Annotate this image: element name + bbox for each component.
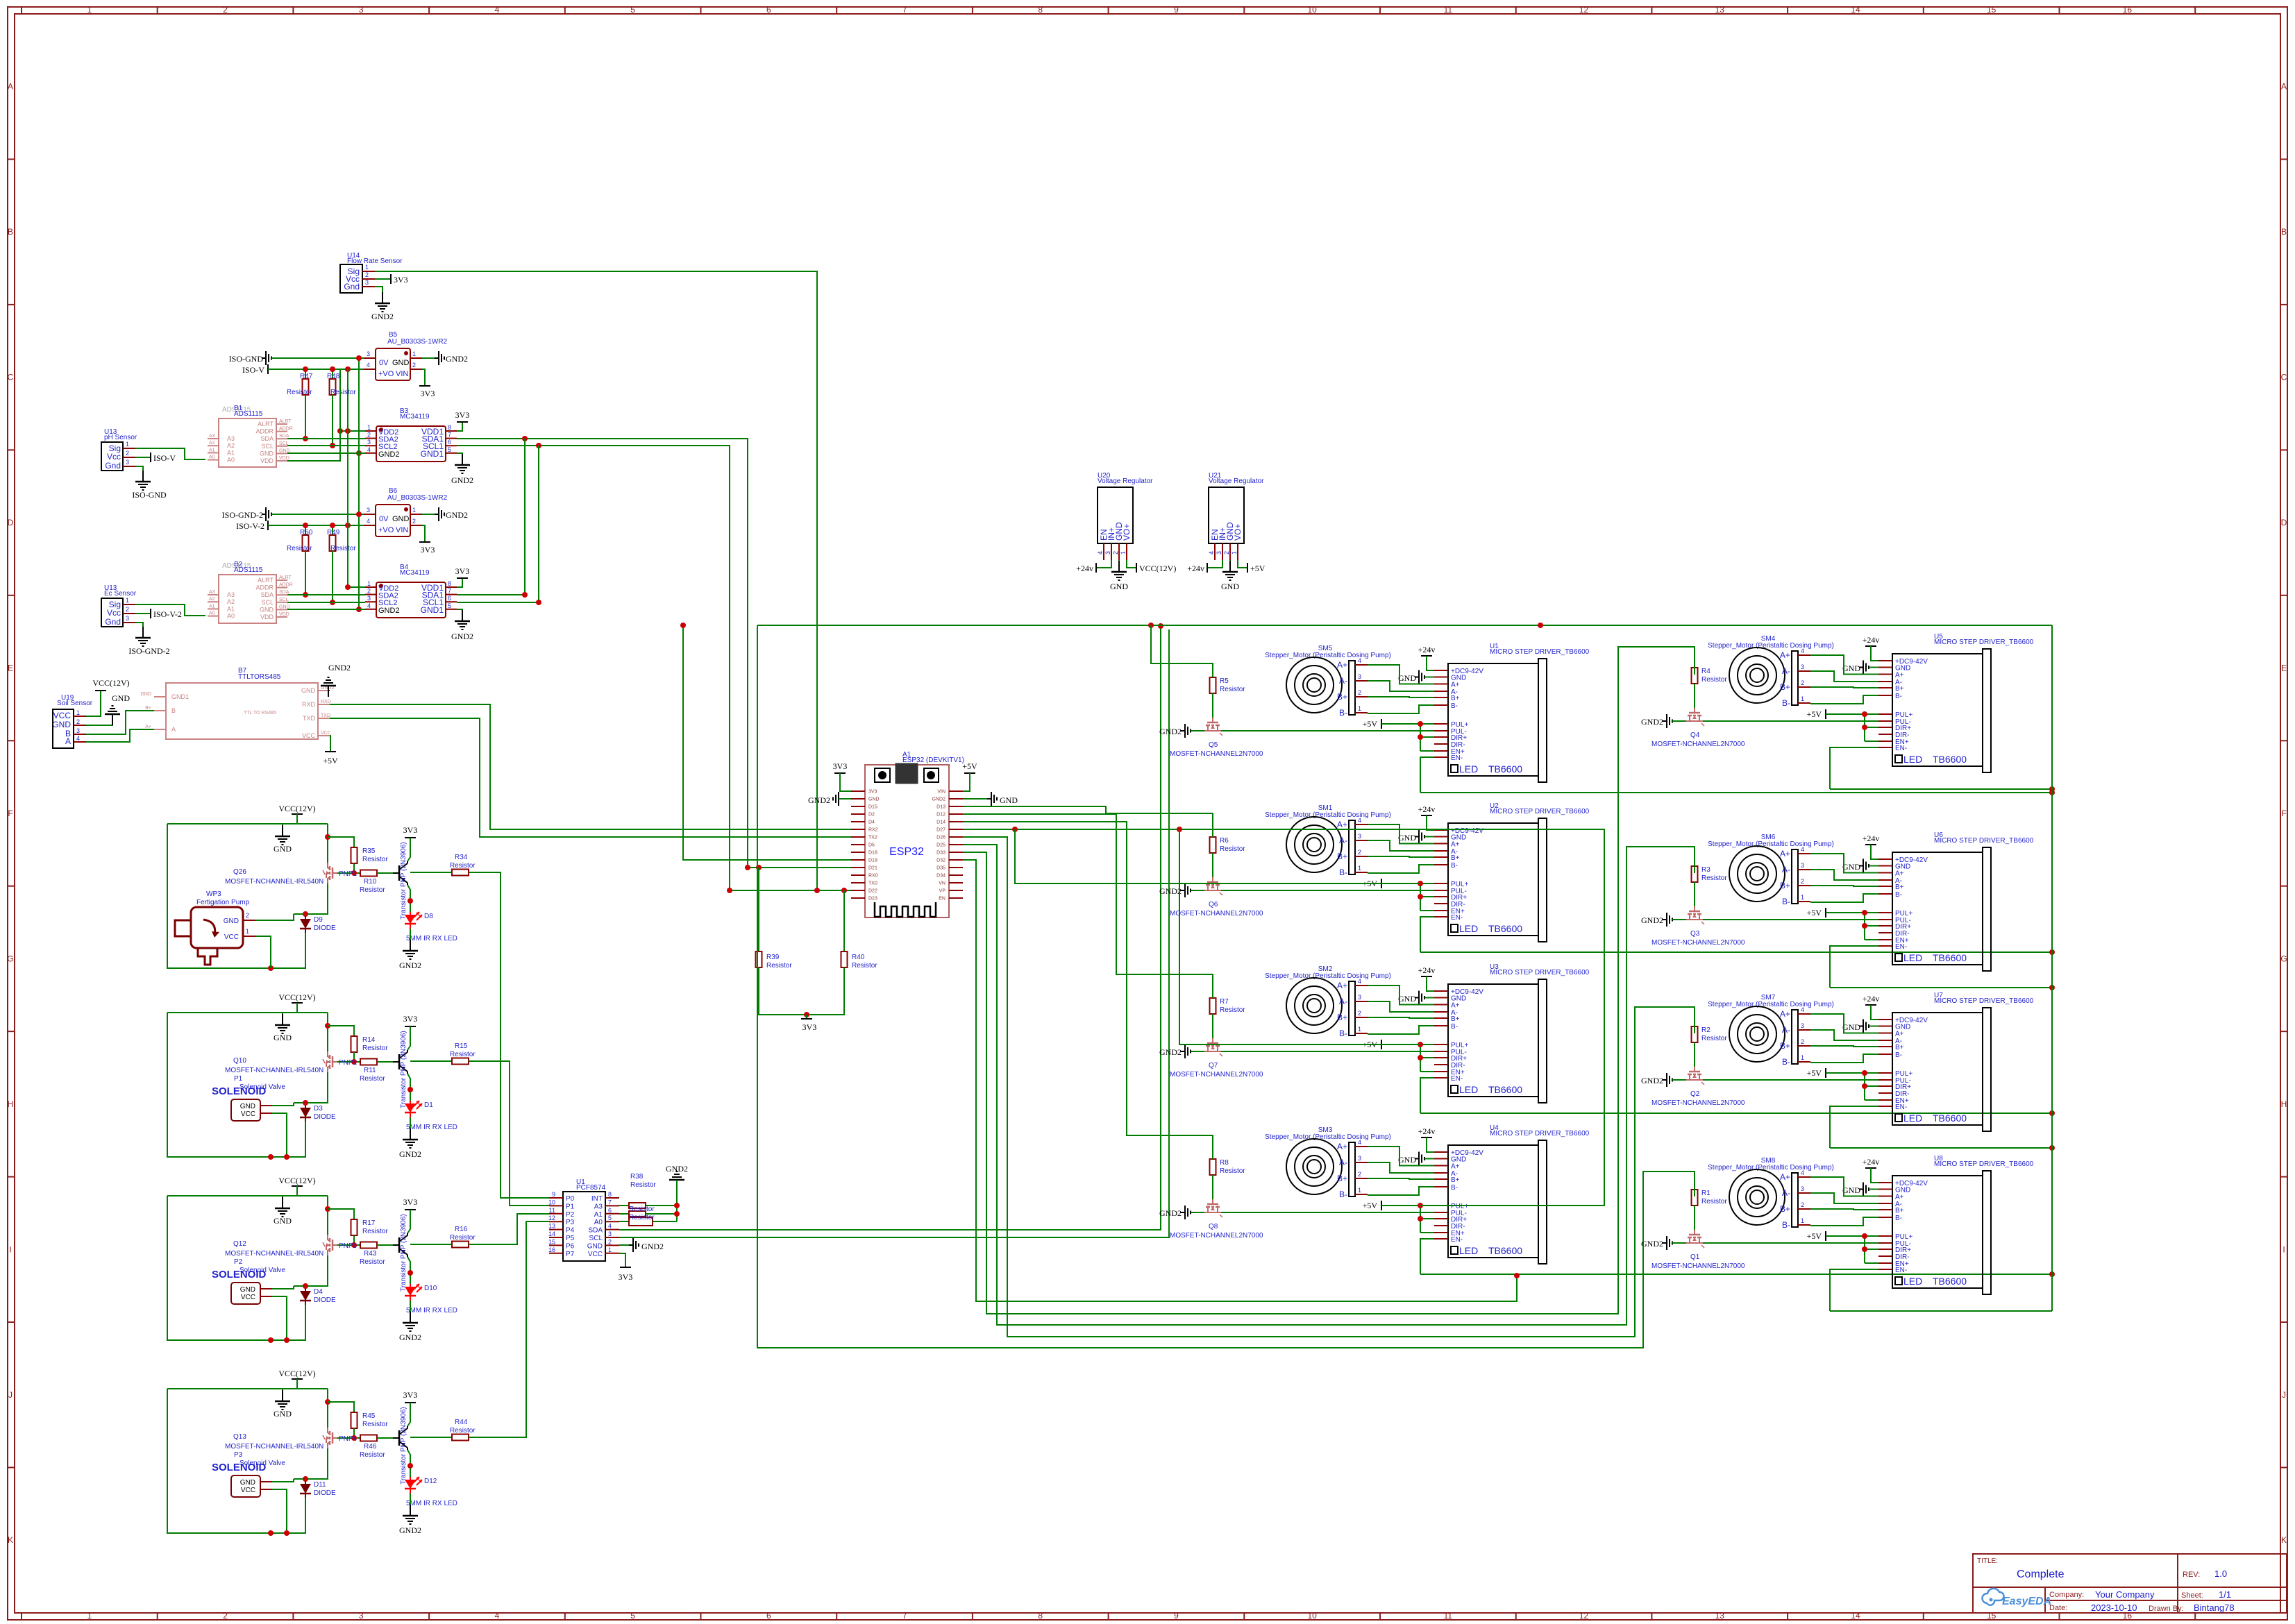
ESP32 boot button — [875, 768, 890, 782]
junction — [1862, 923, 1867, 929]
svg-text:ALRT: ALRT — [258, 421, 274, 428]
svg-text:Resistor: Resistor — [1701, 1035, 1727, 1042]
svg-text:GND: GND — [240, 1479, 255, 1487]
svg-text:Q4: Q4 — [1690, 731, 1700, 739]
wire SM8 B+ — [1810, 1209, 1878, 1210]
pin D32 A1 — [949, 859, 963, 861]
wire SM1 A+ — [1368, 824, 1434, 844]
pin EN+ U8 — [1878, 1262, 1892, 1264]
transistor PNP 2N3906 at Q10 — [393, 1061, 399, 1063]
pin 10 P1 U1 — [549, 1205, 563, 1206]
svg-text:4: 4 — [367, 602, 371, 609]
pin D15 A1 — [851, 806, 865, 807]
svg-text:1: 1 — [412, 507, 416, 514]
pin 2 WP3 — [243, 920, 255, 921]
svg-text:MICRO STEP DRIVER_TB6600: MICRO STEP DRIVER_TB6600 — [1934, 997, 2034, 1005]
svg-text:1: 1 — [1120, 551, 1127, 555]
pin B+ U8 — [1878, 1209, 1892, 1210]
svg-text:7: 7 — [608, 1199, 612, 1206]
svg-text:B-: B- — [1339, 1190, 1347, 1199]
svg-text:GND: GND — [274, 844, 292, 854]
junction — [345, 428, 351, 434]
svg-text:D2: D2 — [868, 813, 875, 818]
junction — [268, 1530, 274, 1536]
svg-text:GND2: GND2 — [399, 1333, 421, 1342]
junction — [303, 523, 308, 528]
svg-text:VIN: VIN — [396, 370, 408, 378]
pin 4 B6 — [364, 525, 376, 526]
pin 13 P4 U1 — [549, 1229, 563, 1230]
svg-text:GND2: GND2 — [1641, 1076, 1663, 1085]
svg-text:GND2: GND2 — [399, 1149, 421, 1159]
pin PUL+ U5 — [1878, 713, 1892, 715]
svg-text:3V3: 3V3 — [403, 1014, 418, 1024]
svg-text:TITLE:: TITLE: — [1977, 1557, 1998, 1565]
svg-text:+5V: +5V — [323, 756, 338, 766]
pin 2 B+ SM8 — [1798, 1208, 1810, 1210]
pin 1 VDD2 B3 — [365, 430, 376, 432]
svg-text:A2: A2 — [209, 597, 215, 602]
svg-text:B-: B- — [1895, 1215, 1902, 1222]
svg-text:A-: A- — [1782, 1188, 1790, 1198]
svg-text:Resistor: Resistor — [450, 862, 476, 870]
connector U19 Soil Sensor — [53, 709, 74, 748]
pin 4 GND2 B3 — [365, 452, 376, 454]
svg-text:2: 2 — [1801, 1038, 1804, 1045]
MOSFET Q8 MOSFET-NCHANNEL2N7000 — [1212, 1199, 1213, 1204]
ground GND2 at D10 — [410, 1312, 411, 1323]
junction — [330, 523, 335, 528]
pin +DC9-42V U4 — [1434, 1151, 1448, 1153]
svg-text:B-: B- — [1451, 1184, 1458, 1192]
IC B2 ADS1115 — [219, 575, 276, 623]
power flag +24v at U21 — [1207, 560, 1222, 568]
svg-text:R2: R2 — [1701, 1026, 1710, 1034]
svg-text:ESP32: ESP32 — [889, 846, 924, 858]
svg-text:TB6600: TB6600 — [1933, 952, 1967, 963]
svg-text:D32: D32 — [936, 858, 945, 863]
title block — [1973, 1554, 2287, 1613]
wire VCC rail — [167, 1012, 328, 1013]
pin 1 VDD2 B4 — [365, 586, 376, 588]
pin 7 A3 U1 — [605, 1205, 619, 1206]
svg-text:VCC: VCC — [302, 732, 316, 739]
svg-text:TTL TO RS485: TTL TO RS485 — [244, 711, 276, 716]
svg-text:Transistor PNP (2N3906): Transistor PNP (2N3906) — [400, 1407, 407, 1485]
ground GND2 at B3 — [457, 453, 462, 465]
svg-text:Resistor: Resistor — [1701, 874, 1727, 882]
svg-text:VCC: VCC — [241, 1110, 255, 1118]
svg-text:Date:: Date: — [2049, 1604, 2067, 1612]
svg-text:RX0: RX0 — [868, 874, 878, 879]
pin A- U2 — [1434, 850, 1448, 852]
pin 6 A1 U1 — [605, 1213, 619, 1215]
svg-text:+5V: +5V — [1807, 1068, 1822, 1078]
svg-text:2: 2 — [1801, 1201, 1804, 1208]
pin 4 A+ SM5 — [1355, 664, 1368, 666]
svg-text:P6: P6 — [566, 1242, 575, 1250]
pin B+ U5 — [1878, 687, 1892, 688]
pin EN+ U4 — [1434, 1232, 1448, 1233]
pin GND U6 — [1878, 865, 1892, 867]
svg-text:MOSFET-NCHANNEL-IRL540N: MOSFET-NCHANNEL-IRL540N — [225, 1443, 323, 1450]
svg-text:A1: A1 — [594, 1211, 603, 1219]
pin +DC9-42V U2 — [1434, 829, 1448, 831]
svg-text:R34: R34 — [455, 854, 468, 861]
pin D2 A1 — [851, 813, 865, 815]
svg-text:2: 2 — [608, 1238, 612, 1245]
svg-text:A1: A1 — [209, 604, 215, 609]
svg-text:Vcc: Vcc — [107, 452, 121, 462]
pin 15 P6 U1 — [549, 1244, 563, 1246]
pin 5 GND1 B4 — [446, 609, 457, 610]
svg-text:P2: P2 — [566, 1211, 575, 1219]
wire B7 TXD to ESP32 TX2 — [330, 718, 851, 837]
pin VP A1 — [949, 890, 963, 891]
wire U14 Sig to ESP32 — [375, 271, 817, 890]
svg-text:B-: B- — [1451, 702, 1458, 710]
junction — [1418, 881, 1423, 886]
svg-text:ISO-GND-2: ISO-GND-2 — [222, 510, 263, 520]
svg-text:Resistor: Resistor — [287, 545, 312, 552]
pin EN- U7 — [1878, 1106, 1892, 1107]
wire +5V to DIR+ and EN+ — [1420, 883, 1421, 911]
svg-text:GND1: GND1 — [171, 693, 189, 700]
wire D13 to R6 — [963, 806, 1213, 837]
svg-text:A-: A- — [1782, 865, 1790, 874]
pin 1 WP3 — [243, 936, 255, 937]
svg-text:4: 4 — [1801, 648, 1804, 654]
pin 2 B+ SM4 — [1798, 686, 1810, 688]
pin EN+ U6 — [1878, 939, 1892, 940]
junction — [841, 888, 847, 893]
pin B+ U7 — [1878, 1046, 1892, 1047]
junction — [1418, 1055, 1423, 1060]
svg-text:GND1: GND1 — [421, 605, 444, 615]
svg-text:D: D — [2281, 518, 2287, 527]
pin 1 B- SM3 — [1355, 1194, 1368, 1195]
resistor R3 — [1692, 866, 1698, 882]
svg-text:Resistor: Resistor — [1701, 676, 1727, 684]
pin EN+ U2 — [1434, 910, 1448, 911]
svg-text:3: 3 — [126, 615, 129, 622]
resistor R6 — [1210, 837, 1216, 853]
wire SM1 A- — [1368, 840, 1434, 851]
svg-text:GND: GND — [240, 1103, 255, 1110]
svg-text:A-: A- — [1339, 836, 1347, 845]
pin 3 A- SM6 — [1798, 869, 1810, 870]
svg-text:GND2: GND2 — [328, 663, 351, 673]
svg-text:G: G — [2280, 954, 2287, 963]
svg-text:PNP2: PNP2 — [339, 1059, 358, 1067]
svg-text:R7: R7 — [1220, 998, 1229, 1006]
power flag 3V3 at B5 VIN — [422, 369, 425, 386]
svg-text:5MM IR RX LED: 5MM IR RX LED — [406, 935, 457, 942]
pin 2 U14 — [362, 278, 375, 280]
svg-text:A+: A+ — [1895, 1031, 1904, 1038]
svg-text:2023-10-10: 2023-10-10 — [2091, 1602, 2137, 1613]
wire +5V to DIR+ and EN+ — [1864, 714, 1865, 741]
svg-text:RXD: RXD — [302, 701, 316, 708]
ground GND at U21 — [1229, 560, 1231, 572]
wire EN- U2 to right trunk — [1420, 951, 2052, 953]
junction — [268, 1337, 274, 1343]
svg-text:A+: A+ — [1895, 1194, 1904, 1201]
pin DIR- U5 — [1878, 734, 1892, 735]
svg-text:GND2: GND2 — [446, 510, 468, 520]
svg-text:MICRO STEP DRIVER_TB6600: MICRO STEP DRIVER_TB6600 — [1490, 1130, 1590, 1137]
svg-text:13: 13 — [548, 1223, 555, 1230]
wire solenoid VCC — [272, 1489, 287, 1533]
svg-text:Resistor: Resistor — [1220, 1167, 1245, 1175]
svg-text:Resistor: Resistor — [450, 1234, 476, 1242]
pin 2 B+ SM5 — [1355, 696, 1368, 697]
power flag 3V3 at B4 — [457, 578, 462, 587]
svg-text:A+: A+ — [1451, 682, 1460, 689]
wire VDD2 link B3-B4 — [348, 369, 365, 587]
svg-text:VCC(12V): VCC(12V) — [278, 1369, 315, 1378]
pin A- U4 — [1434, 1172, 1448, 1174]
junction — [1862, 1070, 1867, 1076]
svg-text:A2: A2 — [227, 598, 235, 605]
pin 6 SCL1 B3 — [446, 445, 457, 446]
pin GND B7 — [154, 696, 166, 697]
diode D4 DIODE — [305, 1286, 306, 1291]
svg-text:A: A — [2281, 82, 2287, 92]
svg-text:VCC(12V): VCC(12V) — [278, 1176, 315, 1185]
LED indicator U3 — [1451, 1085, 1458, 1093]
pin EN- U5 — [1878, 747, 1892, 748]
pin PUL+ U1 — [1434, 723, 1448, 725]
svg-text:B-: B- — [1895, 891, 1902, 899]
svg-text:A-: A- — [1782, 1025, 1790, 1035]
svg-text:D: D — [8, 518, 14, 527]
pin 3 B5 — [364, 357, 376, 359]
svg-text:D10: D10 — [424, 1285, 437, 1292]
svg-text:VIN: VIN — [396, 526, 408, 534]
svg-text:SOLENOID: SOLENOID — [212, 1462, 267, 1473]
svg-text:MC34119: MC34119 — [400, 569, 430, 577]
svg-text:B+: B+ — [1895, 1044, 1904, 1051]
wire D14 to R8 — [963, 822, 1213, 1159]
svg-text:+24v: +24v — [1418, 645, 1436, 654]
svg-text:EasyEDA: EasyEDA — [2002, 1596, 2051, 1607]
pin 1 VCC U1 — [605, 1253, 619, 1254]
pin 6 SCL1 B4 — [446, 601, 457, 602]
wire SM2 B- — [1368, 1026, 1434, 1034]
pin 4 A U19 — [74, 741, 86, 743]
svg-text:3V3: 3V3 — [421, 389, 435, 398]
svg-text:3: 3 — [76, 727, 80, 734]
svg-text:+VO: +VO — [378, 370, 394, 378]
svg-text:ALRT: ALRT — [279, 419, 292, 424]
pin 2 SDA2 B4 — [365, 594, 376, 595]
resistor R15 — [410, 1060, 452, 1062]
pin D18 A1 — [851, 852, 865, 853]
pin A2 B1 — [208, 445, 219, 446]
svg-text:VN: VN — [939, 881, 945, 886]
MOSFET Q12 MOSFET-NCHANNEL-IRL540N — [327, 1196, 328, 1235]
svg-text:B-: B- — [1895, 693, 1902, 700]
wire ISO-GND-2 to B6 pin3 — [271, 514, 364, 515]
junction — [268, 965, 274, 971]
wire ESP32 D22 line — [730, 890, 851, 891]
svg-text:Resistor: Resistor — [362, 1228, 388, 1235]
svg-text:RXD: RXD — [321, 700, 331, 704]
resistor R45 — [328, 1402, 354, 1412]
junction — [1418, 1042, 1423, 1047]
resistor R37 — [619, 1213, 629, 1215]
pin VIN A1 — [949, 790, 963, 792]
pin D23 A1 — [851, 897, 865, 899]
MOSFET Q6 MOSFET-NCHANNEL2N7000 — [1212, 877, 1213, 882]
svg-text:A-: A- — [1339, 1158, 1347, 1167]
svg-text:Q26: Q26 — [233, 868, 246, 876]
svg-text:Resistor: Resistor — [362, 1044, 388, 1052]
svg-text:2: 2 — [365, 271, 369, 278]
svg-text:SCL: SCL — [279, 441, 289, 446]
resistor R50 — [305, 525, 306, 535]
svg-text:6: 6 — [766, 5, 771, 15]
junction — [2049, 1145, 2055, 1151]
svg-text:VCC(12V): VCC(12V) — [278, 804, 315, 813]
svg-text:GND: GND — [1842, 663, 1860, 673]
svg-text:Resistor: Resistor — [629, 1206, 655, 1213]
pin 3 A- SM7 — [1798, 1029, 1810, 1031]
svg-text:GND: GND — [1398, 833, 1416, 843]
svg-text:D21: D21 — [868, 866, 877, 871]
wire EN- U4 to right trunk — [1420, 1274, 2052, 1275]
svg-text:2: 2 — [126, 606, 129, 613]
svg-text:GND2: GND2 — [1159, 1047, 1182, 1057]
pin GND B7 — [318, 690, 330, 691]
LED indicator U8 — [1895, 1277, 1902, 1285]
ground flag GND2 at U1 pin2 — [619, 1244, 633, 1246]
resistor R17 — [328, 1209, 354, 1219]
transistor PNP 2N3906 at Q26 — [393, 872, 399, 874]
pin DIR- U8 — [1878, 1255, 1892, 1257]
junction — [2049, 1271, 2055, 1277]
pin D5 A1 — [851, 844, 865, 845]
junction — [407, 1087, 413, 1092]
svg-text:+24v: +24v — [1863, 1157, 1880, 1167]
junction — [1514, 1273, 1520, 1278]
svg-text:3: 3 — [1801, 862, 1804, 869]
svg-text:3: 3 — [1104, 551, 1111, 555]
wire VCC rail — [167, 1388, 328, 1389]
svg-text:+VO: +VO — [378, 526, 394, 534]
wire SM3 A- — [1368, 1162, 1434, 1173]
pin B+ U2 — [1434, 856, 1448, 858]
wire D26 bundle — [963, 837, 1695, 1337]
svg-text:R49: R49 — [327, 529, 340, 536]
junction — [1418, 734, 1423, 740]
svg-text:R4: R4 — [1701, 668, 1710, 675]
resistor R1 — [1692, 1190, 1698, 1206]
pin 4 EN U21 — [1214, 543, 1216, 560]
power flag +5V at U21 — [1238, 560, 1247, 568]
svg-text:A+: A+ — [1895, 672, 1904, 679]
wire ISO-V-2 to B6 pin4 — [268, 525, 364, 526]
pin B+ U1 — [1434, 697, 1448, 698]
svg-text:8: 8 — [608, 1191, 612, 1198]
svg-text:4: 4 — [1208, 551, 1215, 555]
power flag +24v at U20 — [1096, 560, 1111, 568]
wire VCC rail — [167, 1195, 328, 1196]
pin DIR+ U6 — [1878, 925, 1892, 927]
transistor PNP 2N3906 at Q13 — [393, 1437, 399, 1439]
pin 4 A+ SM8 — [1798, 1176, 1810, 1178]
svg-text:Q12: Q12 — [233, 1240, 246, 1248]
pin 1 B5 — [410, 357, 422, 359]
pin +DC9-42V U1 — [1434, 670, 1448, 671]
svg-text:GND2: GND2 — [1641, 915, 1663, 925]
svg-text:D27: D27 — [936, 828, 945, 833]
svg-text:1: 1 — [126, 441, 129, 448]
resistor R35 — [328, 837, 354, 847]
pin A+ U8 — [1878, 1196, 1892, 1197]
svg-text:B-: B- — [1339, 868, 1347, 877]
svg-text:ALRT: ALRT — [258, 577, 274, 584]
pin GND A1 — [851, 798, 865, 800]
pin 2 GND U1 — [605, 1244, 619, 1246]
pin 3 U13 — [123, 622, 135, 623]
junction — [303, 592, 308, 598]
pin EN- U3 — [1434, 1077, 1448, 1079]
wire SM2 A- — [1368, 1001, 1434, 1012]
pin 2 B+ SM3 — [1355, 1178, 1368, 1179]
svg-text:D15: D15 — [868, 805, 877, 810]
svg-text:9: 9 — [1174, 1611, 1179, 1621]
svg-text:Transistor PNP (2N3906): Transistor PNP (2N3906) — [400, 1214, 407, 1292]
svg-text:Gnd: Gnd — [344, 282, 360, 291]
wire SM6 A- — [1810, 870, 1878, 880]
svg-text:P7: P7 — [566, 1251, 575, 1258]
svg-text:INT: INT — [591, 1195, 603, 1203]
junction — [1158, 623, 1163, 629]
pin 1 B- SM1 — [1355, 872, 1368, 873]
svg-text:TB6600: TB6600 — [1933, 754, 1967, 765]
power flag VCC(12V) at U20 — [1127, 560, 1136, 568]
pin GND2 A1 — [949, 798, 963, 800]
resistor R48 — [332, 369, 333, 379]
EasyEDA logo — [1982, 1589, 2003, 1605]
pin EN- U2 — [1434, 916, 1448, 917]
pin 3 A- SM2 — [1355, 1001, 1368, 1002]
wire bottom bus outer — [757, 1172, 1695, 1348]
pin A- U3 — [1434, 1011, 1448, 1013]
IC B7 TTLTORS485 — [166, 683, 318, 739]
pin B- U6 — [1878, 893, 1892, 895]
wire Q4 drain to PUL- — [1703, 720, 1878, 722]
svg-text:GND: GND — [868, 797, 880, 802]
svg-text:R47: R47 — [300, 373, 313, 380]
pin A- U7 — [1878, 1040, 1892, 1041]
LED D12 5MM IR RX LED — [405, 1480, 416, 1489]
svg-text:2: 2 — [1801, 679, 1804, 686]
svg-text:Q7: Q7 — [1209, 1062, 1218, 1069]
svg-text:VCC: VCC — [588, 1251, 603, 1258]
wire B1 VDD to ISO-V — [287, 369, 340, 461]
svg-text:B-: B- — [1782, 897, 1790, 906]
pin D13 A1 — [949, 806, 963, 807]
wire EN- U5 to trunk — [1830, 788, 2052, 790]
svg-text:1: 1 — [1358, 865, 1361, 872]
pin A0 B2 — [208, 616, 219, 617]
svg-text:1: 1 — [1801, 894, 1804, 901]
svg-text:R39: R39 — [766, 954, 780, 961]
svg-text:D11: D11 — [314, 1481, 326, 1489]
